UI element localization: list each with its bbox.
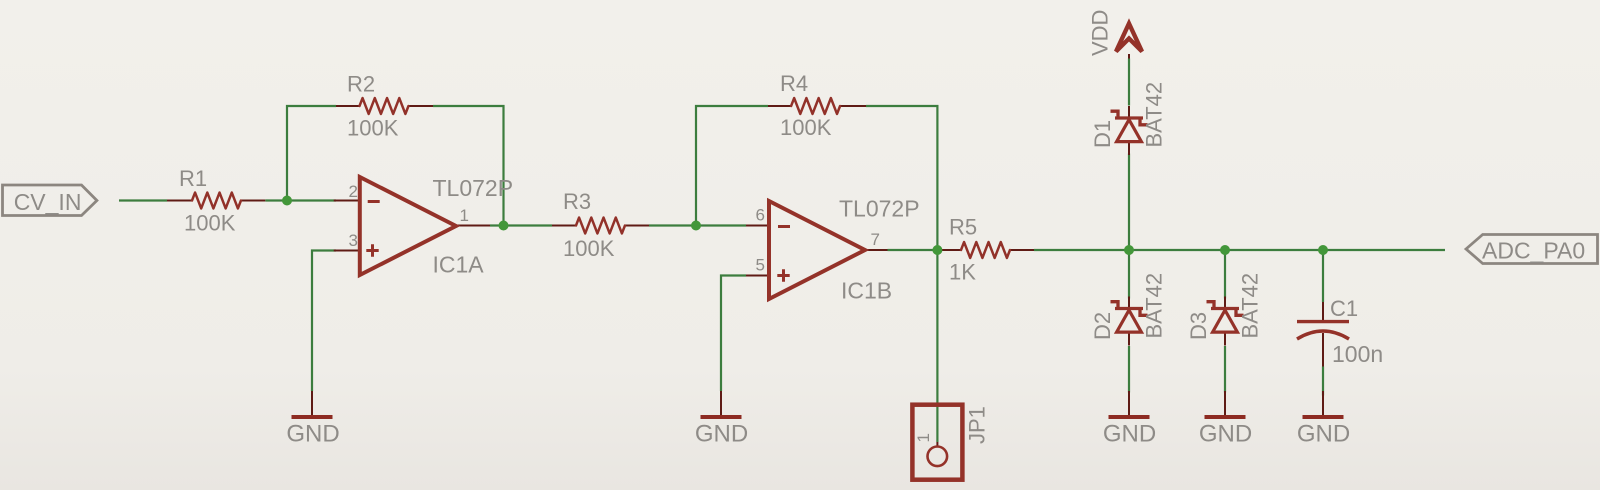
svg-text:IC1B: IC1B [841,278,892,304]
wire VDD to D1 [1128,59,1130,106]
jumper JP1 [912,405,989,480]
svg-text:C1: C1 [1330,296,1358,321]
svg-text:GND: GND [1103,421,1156,448]
supply VDD [1088,10,1143,59]
svg-text:D2: D2 [1090,312,1115,340]
junction node G [1318,245,1328,255]
wire node G to C1 [1322,250,1324,302]
svg-text:CV_IN: CV_IN [14,189,82,215]
svg-text:JP1: JP1 [965,406,990,444]
junction node A [282,196,292,206]
wire R3 to node C and IC1B pin6 [649,224,746,226]
wire D1 to node E [1128,154,1130,251]
svg-text:100n: 100n [1332,341,1383,367]
svg-text:R2: R2 [347,71,375,96]
capacitor C1 [1297,296,1383,367]
svg-text:TL072P: TL072P [839,196,920,222]
svg-text:ADC_PA0: ADC_PA0 [1482,238,1585,264]
svg-text:1K: 1K [949,260,976,285]
svg-text:100K: 100K [563,236,615,261]
wire IC1A pin3 to GND [312,251,336,392]
svg-text:BAT42: BAT42 [1238,273,1263,339]
flag CV_IN [3,185,97,216]
svg-text:3: 3 [349,231,358,250]
wire R2 to node B [433,106,504,226]
ground below D3 [1199,391,1252,448]
junction node C [691,221,701,231]
svg-text:R4: R4 [780,71,808,96]
svg-text:100K: 100K [780,115,832,140]
junction node D [932,245,942,255]
wire R5 to ADC_PA0 [1034,249,1445,251]
diode D2 BAT42 [1090,273,1167,346]
wire IC1B pin5 to GND [721,276,746,392]
svg-text:D1: D1 [1090,120,1115,148]
svg-text:100K: 100K [347,115,399,140]
wire node C up to R4 rail [696,106,768,226]
svg-text:R3: R3 [563,189,591,214]
resistor R4 [768,71,866,140]
svg-text:1: 1 [914,433,933,442]
resistor R5 [939,215,1035,285]
resistor R1 [167,166,265,236]
ground below C1 [1297,391,1350,448]
junction node F [1220,245,1230,255]
svg-text:GND: GND [286,421,339,448]
ground below IC1B pin5 [695,391,748,448]
svg-text:100K: 100K [184,211,236,236]
junction node E [1124,245,1134,255]
svg-text:6: 6 [756,206,765,225]
diode D3 BAT42 [1186,273,1263,346]
svg-text:BAT42: BAT42 [1142,273,1167,339]
junction node B [499,221,509,231]
svg-text:GND: GND [1297,421,1350,448]
wire node E to D2 [1128,250,1130,299]
wire node D down to JP1 [936,250,938,442]
op-amp IC1B [746,196,920,304]
svg-text:GND: GND [1199,421,1252,448]
wire C1 to GND [1322,367,1324,396]
svg-text:BAT42: BAT42 [1142,82,1167,148]
wire node A up to R2 rail [287,106,336,201]
ground below IC1A pin3 [286,391,339,448]
svg-text:1: 1 [460,206,469,225]
svg-text:7: 7 [871,230,880,249]
wire CV_IN to R1 [119,199,167,201]
svg-text:IC1A: IC1A [433,252,485,278]
wire node F to D3 [1224,250,1226,299]
diode D1 BAT42 [1090,82,1167,155]
svg-text:VDD: VDD [1088,10,1113,56]
wire D2 to GND [1128,346,1130,393]
wire IC1A output to R3 [490,224,552,226]
svg-text:D3: D3 [1186,312,1211,340]
svg-text:R1: R1 [179,166,207,191]
wire IC1B output to node D [888,249,938,251]
svg-text:TL072P: TL072P [433,175,514,201]
svg-text:2: 2 [349,182,358,201]
op-amp IC1A [334,175,513,278]
resistor R3 [552,189,649,261]
svg-text:GND: GND [695,421,748,448]
resistor R2 [336,71,433,140]
wire R4 to node D [866,106,937,250]
wire R1 to node A and IC1A pin2 [265,199,336,201]
svg-text:5: 5 [756,256,765,275]
svg-text:R5: R5 [949,215,977,240]
wire D3 to GND [1224,346,1226,393]
ground below D2 [1103,391,1156,448]
flag ADC_PA0 [1466,235,1598,264]
